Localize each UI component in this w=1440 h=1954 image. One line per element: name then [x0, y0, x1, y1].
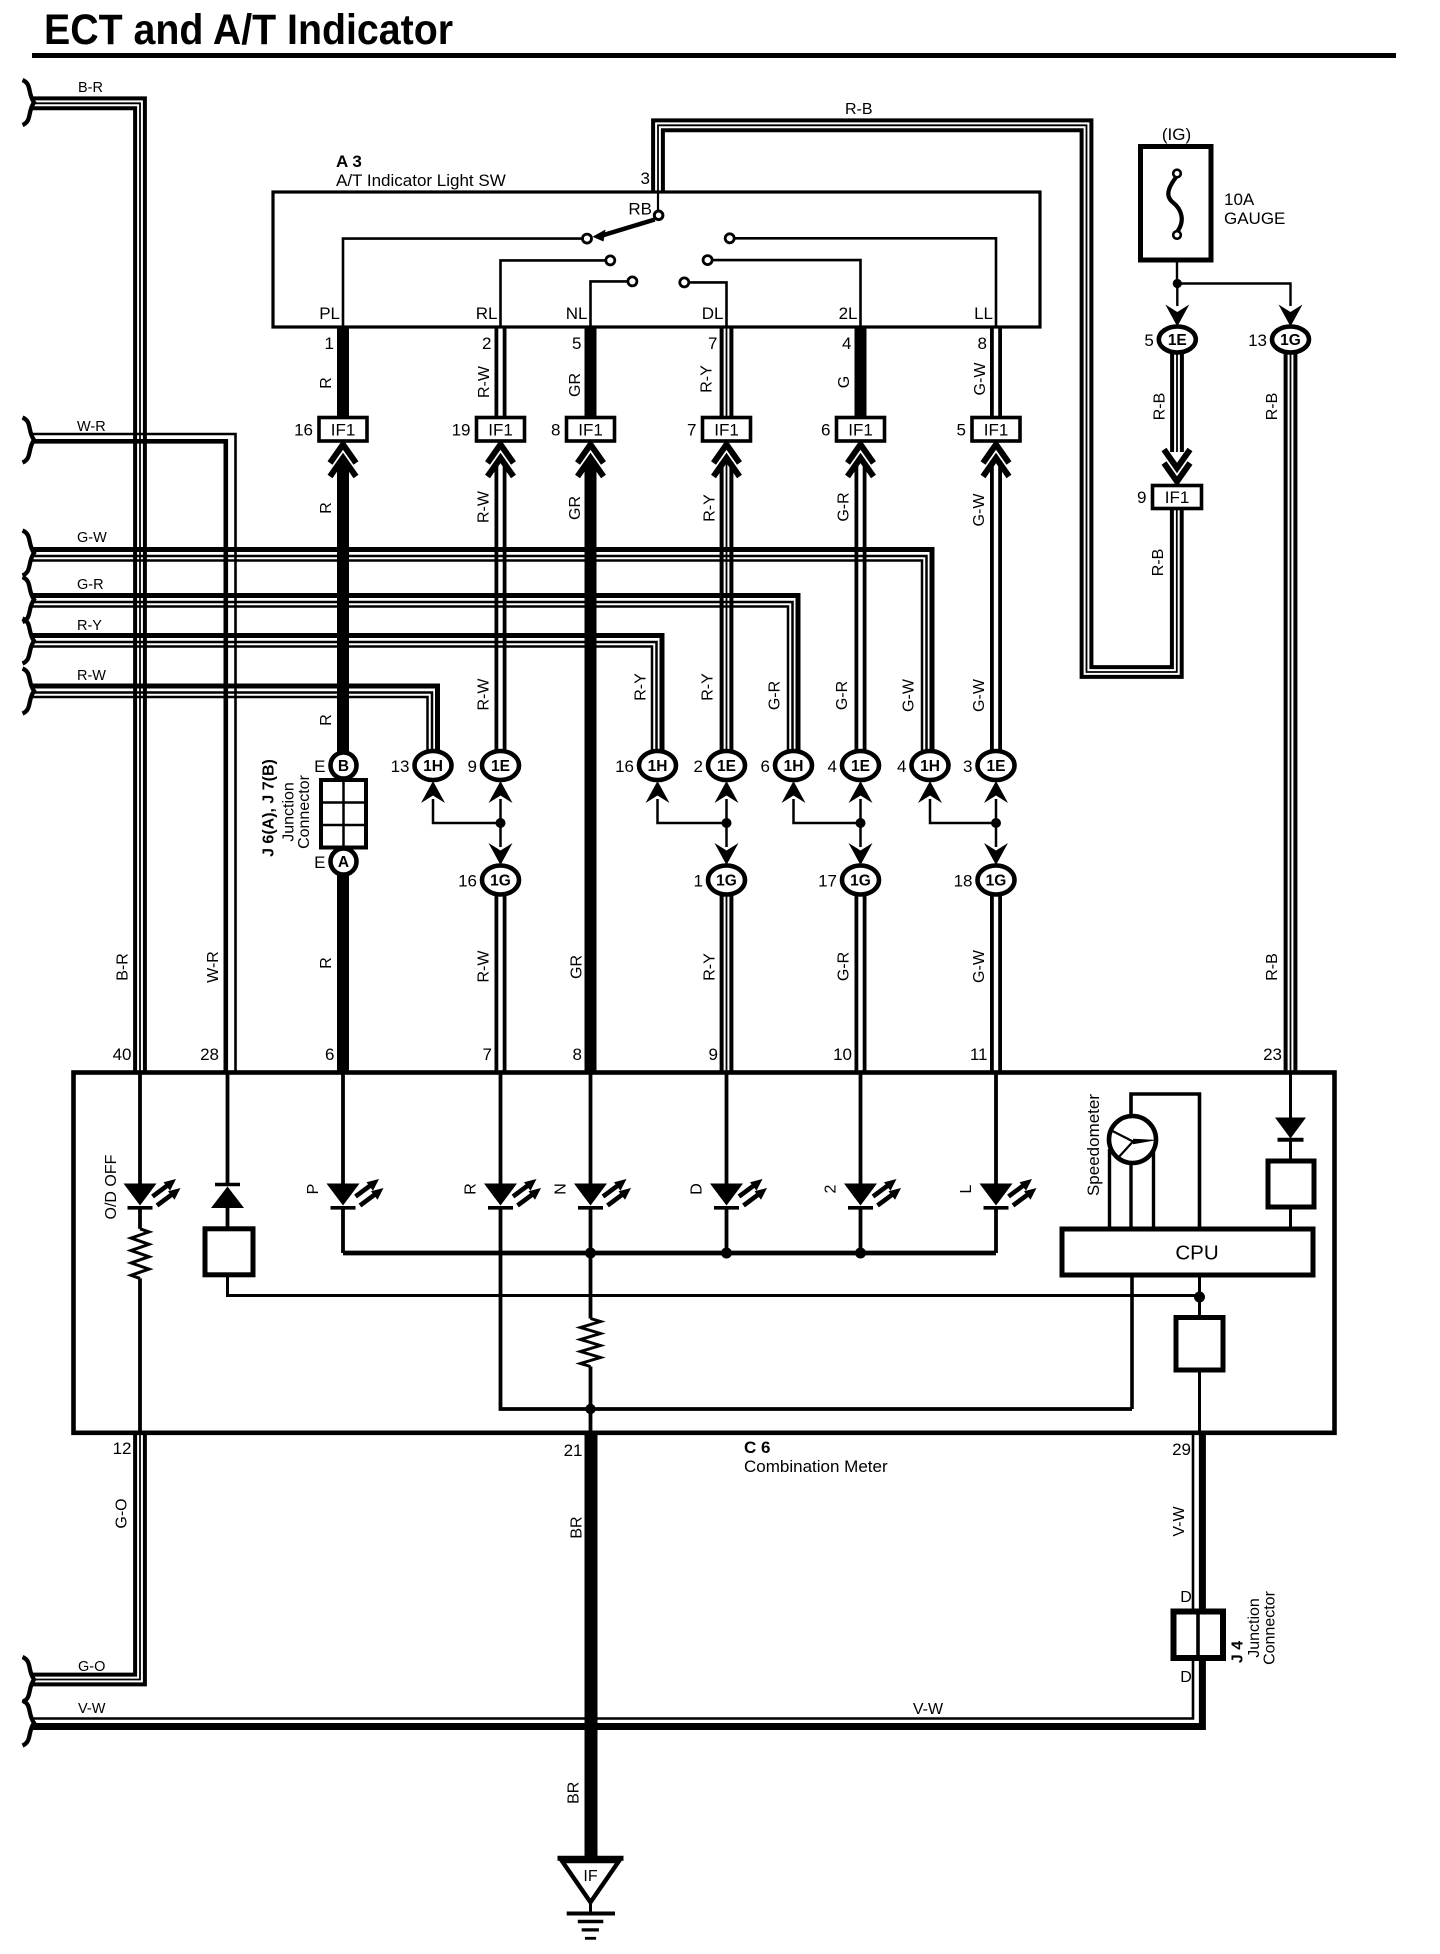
svg-text:C 6: C 6 [744, 1438, 770, 1457]
wire link 6-1H to 4-1E [794, 799, 861, 823]
label 2 [823, 1184, 840, 1193]
wire R to pin 6 [337, 875, 349, 1073]
arrow into 1E 2 [715, 781, 739, 803]
svg-text:3: 3 [963, 757, 972, 776]
svg-text:G-W: G-W [971, 678, 988, 712]
label G-W low2 [971, 678, 988, 712]
svg-text:Junction: Junction [281, 782, 298, 842]
svg-text:6: 6 [821, 421, 830, 440]
connector 1G 1 [694, 866, 745, 895]
svg-text:12: 12 [113, 1439, 132, 1458]
label CPU [1175, 1242, 1218, 1265]
label Junction [281, 782, 298, 842]
label R-B [1152, 393, 1169, 421]
wire to pin 12 [138, 1278, 142, 1432]
wire P to cathode bus [341, 1210, 345, 1254]
connector 1G 13 [1248, 327, 1309, 353]
label W-R [77, 419, 106, 435]
svg-text:6: 6 [325, 1045, 334, 1064]
wire L to cathode bus [994, 1210, 998, 1254]
wire R-B from A3 pin 3 up, right, down and to IF1 connector 9 [653, 120, 1182, 677]
svg-text:1H: 1H [648, 758, 668, 775]
label G-O vertical [114, 1498, 131, 1528]
svg-text:Combination Meter: Combination Meter [744, 1457, 888, 1476]
wire CPU bottom left [1130, 1275, 1134, 1409]
svg-text:2: 2 [694, 757, 703, 776]
svg-text:Junction: Junction [1246, 1598, 1263, 1658]
LED R [484, 1179, 541, 1208]
svg-text:N: N [553, 1183, 570, 1195]
resistor N [581, 1319, 601, 1367]
LED P [327, 1179, 384, 1208]
svg-text:1: 1 [325, 334, 334, 353]
label pin 8 [573, 1045, 582, 1064]
arrow into IF1 16 [330, 445, 356, 477]
svg-text:3: 3 [641, 169, 650, 188]
label D [689, 1183, 706, 1195]
label pin 12 [113, 1439, 132, 1458]
label Combination Meter [744, 1457, 888, 1476]
junction dot [496, 818, 506, 828]
connector 1E 3 [963, 751, 1014, 780]
label pin 7 [483, 1045, 492, 1064]
svg-text:A 3: A 3 [336, 152, 362, 171]
wire O/D OFF resistor top [138, 1210, 142, 1229]
wire 4-1E down [859, 799, 862, 847]
connector IF1 8 [551, 418, 614, 442]
wire R-Y bus to 1H connector [32, 636, 662, 752]
arrow into 1E 9 [489, 781, 513, 803]
label R-W mid [476, 490, 493, 523]
label G-R [77, 577, 104, 593]
svg-text:(IG): (IG) [1162, 125, 1191, 144]
wire PL contact [343, 239, 582, 327]
wire G pin4 [855, 327, 867, 418]
label pin 5 [572, 334, 581, 353]
svg-text:R-B: R-B [1150, 549, 1167, 577]
svg-text:R-W: R-W [77, 668, 106, 684]
svg-text:1G: 1G [850, 873, 871, 890]
wire 2 LED [859, 1073, 863, 1184]
svg-text:G-R: G-R [767, 681, 784, 710]
connector IF1 16 [294, 418, 367, 442]
svg-text:Connector: Connector [1262, 1590, 1279, 1664]
svg-text:9: 9 [709, 1045, 718, 1064]
label B-R vertical [115, 953, 132, 981]
label A/T Indicator Light SW [336, 171, 506, 190]
arrow into IF1 6 [848, 445, 874, 477]
label pin 6 [325, 1045, 334, 1064]
label R-B bottom [1264, 953, 1281, 981]
svg-text:R-B: R-B [1264, 953, 1281, 981]
svg-text:28: 28 [200, 1045, 219, 1064]
connector stub brace R-W [23, 669, 35, 714]
label J4 Connector [1262, 1590, 1279, 1664]
svg-text:G-W: G-W [77, 530, 107, 546]
label G-W mid [971, 493, 988, 527]
LED O/D OFF [124, 1179, 181, 1208]
wire junction down [1176, 285, 1178, 306]
svg-text:V-W: V-W [78, 1701, 106, 1717]
svg-text:9: 9 [1137, 488, 1146, 507]
junction dot N bus [585, 1248, 596, 1259]
connector 1E 5 [1144, 327, 1195, 353]
svg-text:DL: DL [702, 304, 724, 323]
svg-text:R-Y: R-Y [700, 673, 717, 701]
connector IF1 7 [687, 418, 750, 442]
svg-text:18: 18 [954, 872, 973, 891]
svg-text:21: 21 [564, 1441, 583, 1460]
label G [836, 376, 853, 388]
arrow into 1G 17 [849, 843, 873, 865]
arrow into 1E 4 [849, 781, 873, 803]
svg-text:R-Y: R-Y [702, 953, 719, 981]
arrow into 1E 5 [1165, 305, 1189, 327]
label R bottom [318, 957, 335, 969]
arrow into 1H 6 [782, 781, 806, 803]
wire box to pin 29 [1198, 1370, 1201, 1433]
label G-W feeder [901, 678, 918, 712]
connector 1H 6 [761, 751, 812, 780]
arrow into 1G 1 [715, 843, 739, 865]
svg-text:ECT and A/T Indicator: ECT and A/T Indicator [44, 6, 453, 54]
switch pivot contact [654, 211, 663, 220]
svg-text:1G: 1G [490, 873, 511, 890]
svg-text:R-Y: R-Y [633, 673, 650, 701]
connector IF1 6 [821, 418, 884, 442]
junction dot [991, 818, 1001, 828]
wire box to CPU [1289, 1207, 1292, 1229]
wire D LED [725, 1073, 729, 1184]
wire R pin1 [337, 327, 349, 418]
svg-text:2: 2 [823, 1184, 840, 1193]
label (IG) [1162, 125, 1191, 144]
svg-text:B-R: B-R [115, 953, 132, 981]
switch contact DL [680, 278, 689, 287]
label pin 7 [708, 334, 717, 353]
fuse element [1168, 170, 1181, 239]
junction dot D bus [721, 1248, 732, 1259]
box below diode [205, 1229, 253, 1275]
svg-text:G-W: G-W [971, 949, 988, 983]
svg-text:IF1: IF1 [578, 421, 603, 440]
label R-B top [845, 101, 873, 118]
ground earth bars [567, 1914, 615, 1939]
connector IF1 5 [957, 418, 1020, 442]
box below diode right [1268, 1161, 1314, 1207]
A/T indicator light switch box A3 [273, 192, 1040, 327]
svg-text:G-R: G-R [77, 577, 104, 593]
svg-text:G-O: G-O [78, 1659, 105, 1675]
diode W-R (pointing up) [211, 1185, 244, 1209]
svg-text:17: 17 [818, 872, 837, 891]
svg-text:G-W: G-W [971, 493, 988, 527]
wire G-R below IF1 [856, 462, 864, 752]
arrow into 1G 18 [984, 843, 1008, 865]
label G-O [78, 1659, 105, 1675]
svg-text:BR: BR [569, 1516, 586, 1538]
switch contact NL [628, 277, 637, 286]
svg-text:A: A [338, 854, 349, 871]
connector 1G 16 [458, 866, 519, 895]
connector stub brace G-O [23, 1657, 35, 1702]
wire R-W pin2 [496, 327, 504, 418]
wire BR pin 21 to ground [585, 1433, 598, 1858]
label A 3 [336, 152, 362, 171]
svg-text:IF: IF [583, 1868, 597, 1885]
label R-Y low2 [700, 673, 717, 701]
wire G-W pin8 [992, 327, 1000, 418]
combination meter box C6 [74, 1073, 1335, 1433]
label DL [702, 304, 724, 323]
wire R-W bus to 1H connector [32, 686, 438, 752]
svg-text:1G: 1G [716, 873, 737, 890]
svg-text:R-B: R-B [1264, 393, 1281, 421]
label P [305, 1184, 322, 1195]
arrow into 1G 16 [489, 843, 513, 865]
svg-text:R-Y: R-Y [702, 494, 719, 522]
svg-text:11: 11 [970, 1045, 988, 1064]
label G-W bottom [971, 949, 988, 983]
wire R LED [499, 1073, 503, 1184]
label Connector [296, 774, 313, 848]
wire box to CPU line [228, 1275, 1200, 1296]
junction connector J6(A) J7(B) grid [321, 780, 366, 848]
label V-W mid [913, 1701, 944, 1718]
svg-text:R-W: R-W [476, 490, 493, 523]
label pin 8 [978, 334, 987, 353]
label C 6 [744, 1438, 770, 1457]
label W-R vertical [205, 951, 222, 983]
svg-text:19: 19 [452, 421, 471, 440]
connector 1H 4 [897, 751, 948, 780]
svg-text:1: 1 [694, 872, 703, 891]
svg-text:R-B: R-B [845, 101, 873, 118]
svg-text:B: B [338, 758, 349, 775]
title underline rule [32, 53, 1396, 58]
wire N resistor to pin 21 [589, 1367, 593, 1433]
svg-text:16: 16 [615, 757, 634, 776]
svg-text:10A: 10A [1224, 190, 1255, 209]
label R-Y feeder [633, 673, 650, 701]
svg-text:23: 23 [1263, 1045, 1282, 1064]
label BR upper [569, 1516, 586, 1538]
wire P LED [341, 1073, 345, 1184]
svg-text:R: R [318, 714, 335, 726]
LED 2 [844, 1179, 901, 1208]
label RL [476, 304, 498, 323]
label R-W bottom [476, 950, 493, 983]
junction dot [722, 818, 732, 828]
svg-text:Connector: Connector [296, 774, 313, 848]
switch arm with arrowhead [593, 220, 655, 242]
svg-text:G-W: G-W [972, 362, 989, 396]
label pin 4 [842, 334, 851, 353]
svg-text:1H: 1H [920, 758, 940, 775]
wire GR pin5 [585, 327, 597, 418]
wire D to cathode bus [725, 1210, 729, 1254]
svg-text:E: E [314, 853, 325, 872]
svg-text:5: 5 [572, 334, 581, 353]
label 2L [839, 304, 858, 323]
label N [553, 1183, 570, 1195]
wire speedometer legs [1110, 1149, 1154, 1229]
wire R-B 1G13 to pin 23 [1286, 353, 1296, 1073]
connector 1E 9 [468, 751, 519, 780]
svg-text:PL: PL [319, 304, 340, 323]
ground IF [558, 1858, 624, 1911]
svg-text:O/D OFF: O/D OFF [103, 1154, 120, 1219]
label pin 9 [709, 1045, 718, 1064]
cathode bus [343, 1251, 996, 1256]
svg-text:BR: BR [566, 1782, 583, 1804]
connector 1H 13 [391, 751, 452, 780]
wire R below IF1 [337, 462, 349, 753]
label LL [974, 304, 993, 323]
svg-text:R-B: R-B [1152, 393, 1169, 421]
svg-text:1G: 1G [1280, 332, 1301, 349]
wire R-B to IF1 9 [1172, 353, 1182, 453]
label R-W [77, 668, 106, 684]
svg-text:Speedometer: Speedometer [1084, 1094, 1103, 1196]
label R [318, 377, 335, 389]
label 10A [1224, 190, 1255, 209]
svg-text:8: 8 [978, 334, 987, 353]
wire link 16-1H to 2-1E [658, 799, 727, 823]
label pin 23 [1263, 1045, 1282, 1064]
svg-text:1E: 1E [1168, 332, 1187, 349]
wire G-R bus to 1H connector [32, 596, 798, 752]
connector stub brace G-W [23, 531, 35, 576]
svg-text:L: L [958, 1184, 975, 1193]
switch contact 2L [703, 256, 712, 265]
label R-W low [476, 678, 493, 711]
wire diode to box [1289, 1140, 1292, 1161]
wire G-R to pin 10 [856, 895, 864, 1073]
svg-text:G-R: G-R [834, 681, 851, 710]
wire DL contact [689, 282, 727, 327]
svg-text:LL: LL [974, 304, 993, 323]
svg-text:5: 5 [957, 421, 966, 440]
connector stub brace V-W [23, 1701, 35, 1746]
svg-text:1G: 1G [986, 873, 1007, 890]
label R LED [463, 1183, 480, 1195]
label G-R feeder [767, 681, 784, 710]
wire link 4-1H to 3-1E [930, 799, 996, 823]
label G-W [972, 362, 989, 396]
wire B-R horizontal+vertical to pin 40 [32, 98, 145, 1072]
svg-text:W-R: W-R [77, 419, 106, 435]
wire 3-1E down [995, 799, 998, 847]
label R-Y mid [702, 494, 719, 522]
svg-text:W-R: W-R [205, 951, 222, 983]
wire R-W to pin 7 [496, 895, 504, 1073]
svg-text:V-W: V-W [1171, 1505, 1188, 1536]
svg-text:RB: RB [628, 200, 652, 219]
label pin 2 [482, 334, 491, 353]
wire link 13-1H to 9-1E [433, 799, 501, 823]
label R-Y [699, 365, 716, 393]
svg-text:1E: 1E [717, 758, 736, 775]
svg-text:GR: GR [567, 373, 584, 397]
wire 9-1E down [499, 799, 502, 847]
wire R-Y to pin 9 [722, 895, 732, 1073]
label L [958, 1184, 975, 1193]
connector stub brace G-R [23, 577, 35, 622]
svg-text:8: 8 [573, 1045, 582, 1064]
label R-Y bottom [702, 953, 719, 981]
wire G-O pin 12 to stub [32, 1433, 145, 1685]
label GR mid [567, 496, 584, 520]
svg-text:R-Y: R-Y [77, 618, 102, 634]
svg-text:NL: NL [566, 304, 588, 323]
svg-text:IF1: IF1 [984, 421, 1009, 440]
svg-text:R: R [463, 1183, 480, 1195]
svg-text:V-W: V-W [913, 1701, 944, 1718]
svg-text:J 4: J 4 [1230, 1641, 1247, 1663]
label pin 29 [1172, 1440, 1191, 1459]
label GR low [569, 955, 586, 979]
label PL [319, 304, 340, 323]
svg-text:1H: 1H [784, 758, 804, 775]
label D lower [1180, 1669, 1192, 1686]
wire LL contact [734, 238, 996, 327]
svg-text:G-W: G-W [901, 678, 918, 712]
svg-text:R-W: R-W [476, 950, 493, 983]
title: ECT and A/T Indicator [44, 6, 453, 54]
svg-text:4: 4 [897, 757, 906, 776]
resistor O/D OFF [131, 1229, 149, 1279]
svg-text:J 6(A), J 7(B): J 6(A), J 7(B) [261, 759, 278, 857]
wire L LED [994, 1073, 998, 1184]
svg-text:R: R [318, 377, 335, 389]
label NL [566, 304, 588, 323]
svg-text:5: 5 [1144, 331, 1153, 350]
svg-text:1E: 1E [851, 758, 870, 775]
wire V-W bus [32, 1433, 1202, 1727]
label R low [318, 714, 335, 726]
wire W-R horizontal+vertical to pin 28 [32, 434, 236, 1073]
svg-text:R: R [318, 957, 335, 969]
svg-text:IF1: IF1 [848, 421, 873, 440]
svg-text:IF1: IF1 [331, 421, 356, 440]
label R mid [318, 502, 335, 514]
LED L [980, 1179, 1037, 1208]
wire R to CPU [501, 1210, 1133, 1410]
wire 2-1E down [725, 799, 728, 847]
arrow into IF1 9 [1164, 450, 1190, 482]
label pin 3 [641, 169, 650, 188]
wire G-W to pin 11 [992, 895, 1000, 1073]
label R-B 1G column [1264, 393, 1281, 421]
svg-text:7: 7 [483, 1045, 492, 1064]
svg-text:GR: GR [567, 496, 584, 520]
wire fuse to junction [1176, 260, 1178, 281]
connector 1G 17 [818, 866, 879, 895]
svg-text:D: D [1180, 1669, 1192, 1686]
label J 6(A), J 7(B) [261, 759, 278, 857]
arrow into IF1 5 [983, 445, 1009, 477]
CPU box [1062, 1229, 1313, 1275]
svg-text:4: 4 [842, 334, 851, 353]
connector stub brace B-R [23, 80, 35, 125]
svg-text:D: D [1180, 1589, 1192, 1606]
junction dot CPU [1194, 1292, 1205, 1303]
junction dot N 1409 [585, 1404, 595, 1414]
connector IF1 9 [1137, 486, 1201, 509]
connector stub brace R-Y [23, 619, 35, 664]
arrow into IF1 8 [578, 445, 604, 477]
